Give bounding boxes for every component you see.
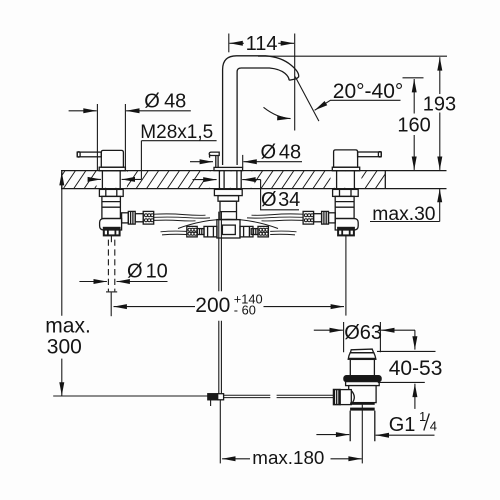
max.30 leader: [439, 189, 441, 222]
pop-up rod coupling white block: [218, 394, 224, 400]
drain lever housing: [340, 390, 351, 405]
svg-text:114: 114: [246, 33, 278, 55]
angle swivel arc: [264, 107, 291, 118]
right hose upper bundle: [247, 214, 303, 221]
rod drop line below coupling: [219, 400, 221, 464]
deck hole centre: [204, 171, 255, 187]
pop-up rod coupling dark block: [208, 394, 218, 400]
pop-up pull rod knob: [209, 152, 219, 158]
svg-text:Ø10: Ø10: [127, 261, 168, 283]
drain plug cap: [348, 353, 376, 360]
svg-text:- 60: - 60: [234, 303, 256, 318]
left valve inlet pipe dashed: [108, 240, 114, 292]
drain slip nut bands: [350, 402, 375, 404]
dim Ø63 extension lines: [344, 322, 381, 352]
right valve elbow: [335, 219, 358, 231]
dim max.300 line: [61, 172, 63, 316]
dim 114 right extension / spout axis line: [294, 34, 296, 131]
right valve mounting nut: [333, 189, 359, 196]
drain tailpipe: [350, 411, 375, 442]
left handle body: [101, 150, 123, 167]
centre shank step: [218, 196, 239, 202]
spout inner contour: [237, 68, 289, 165]
drain washer: [346, 382, 380, 386]
left valve outlet thread: [128, 211, 135, 224]
dim 114 line with arrows: [229, 42, 243, 44]
left valve shank through deck: [102, 171, 120, 189]
tee right hose knurl: [258, 226, 268, 237]
left hose upper bundle: [154, 214, 210, 221]
right hose lower bundle: [270, 231, 296, 235]
left valve elbow: [100, 219, 122, 231]
left valve bottom nut: [104, 228, 120, 236]
pop-up rod lower reference line: [53, 395, 208, 397]
deck hole right valve: [331, 171, 362, 187]
left handle base: [99, 167, 125, 171]
angle label leader: [315, 100, 401, 110]
right handle lever: [358, 152, 382, 157]
svg-text:4: 4: [430, 419, 437, 434]
left valve outlet: [122, 213, 129, 223]
M28x1,5 label leader: [141, 141, 216, 180]
deck bottom line: [61, 188, 447, 190]
svg-text:max.180: max.180: [252, 447, 324, 468]
right valve outlet thread: [322, 211, 329, 224]
left hose lower bundle: [161, 231, 187, 235]
centre tee body: [217, 220, 240, 238]
svg-text:G1: G1: [389, 414, 416, 436]
drain plug top disc: [350, 349, 373, 353]
dim Ø48 left handle arrows: [69, 110, 97, 112]
spout top reference line: [258, 55, 447, 57]
left valve hose knurl: [143, 211, 154, 224]
right handle body: [334, 150, 358, 167]
tee left nut: [204, 226, 217, 237]
dim 193 line: [439, 57, 441, 94]
spout outer contour: [223, 56, 299, 165]
left valve hose nipple: [135, 214, 143, 222]
svg-text:max.: max.: [45, 315, 91, 338]
tee right thread: [251, 229, 258, 235]
spout outlet beak: [289, 79, 296, 81]
left valve mounting nut: [99, 189, 123, 196]
dim Ø48 centre right extension line: [242, 155, 244, 167]
drain upper body: [350, 359, 374, 376]
left valve body: [102, 196, 121, 218]
dim max.180 line with arrows: [222, 458, 250, 460]
drain plug reference line: [377, 350, 436, 352]
dim Ø10 arrows: [79, 281, 107, 283]
spout escutcheon: [214, 167, 243, 170]
centre shank tube: [220, 201, 237, 219]
deck top line: [61, 170, 447, 172]
left handle lever: [77, 152, 101, 157]
right valve body: [335, 196, 354, 218]
svg-text:1: 1: [419, 409, 426, 424]
dim Ø48 left handle extension lines: [97, 104, 125, 170]
pop-up rod: [219, 212, 222, 394]
right valve hose knurl: [303, 211, 314, 224]
drain rod knob: [333, 389, 340, 404]
dim 200 line with arrows: [114, 306, 196, 308]
tee left hose knurl: [187, 226, 197, 237]
drain lower body: [349, 386, 376, 403]
deck hole left valve: [97, 171, 128, 187]
tee left thread: [197, 229, 204, 235]
right valve bottom nut: [338, 228, 354, 236]
right valve outlet: [329, 213, 336, 223]
right valve hose nipple: [314, 214, 322, 222]
right handle base: [332, 167, 359, 171]
dim Ø63 arrows: [314, 329, 343, 331]
centre shank tube joint: [220, 211, 237, 213]
pop-up pull rod stem: [216, 156, 218, 168]
spout outlet reference line: [403, 77, 424, 79]
svg-text:M28x1,5: M28x1,5: [140, 122, 213, 143]
centre mounting nut: [214, 189, 242, 195]
svg-text:40-53: 40-53: [389, 357, 443, 380]
G1 1/4 fraction slash: [424, 414, 430, 431]
dim 40-53 lower arrow: [414, 384, 416, 409]
coupling clamp stub: [210, 400, 212, 406]
svg-text:20°-40°: 20°-40°: [333, 80, 404, 103]
svg-text:Ø48: Ø48: [261, 141, 302, 163]
right valve centreline extension: [345, 235, 347, 315]
svg-text:Ø34: Ø34: [261, 189, 300, 211]
drain seal reference line: [378, 381, 425, 383]
svg-text:Ø48: Ø48: [144, 90, 186, 112]
deck right hatch edge: [384, 171, 386, 189]
dim 160 line: [413, 79, 415, 114]
drain seal ring: [344, 376, 381, 382]
svg-text:Ø63: Ø63: [344, 322, 382, 344]
tee right nut: [240, 226, 253, 237]
svg-text:max.30: max.30: [372, 204, 435, 225]
centre shank through deck: [219, 171, 241, 189]
drain centreline: [361, 405, 363, 464]
dim Ø34 arrows and leader: [193, 179, 217, 181]
dim 114 left extension line: [228, 34, 230, 53]
G1 1/4 leader arrows: [316, 434, 349, 436]
right valve shank through deck: [337, 171, 355, 189]
angle leader diagonal: [295, 77, 319, 122]
dim 40-53 upper arrow: [414, 330, 416, 349]
svg-text:193: 193: [423, 94, 456, 116]
horizontal pop-up rod: [224, 395, 334, 397]
svg-text:160: 160: [397, 115, 430, 137]
dim Ø48 centre arrows: [190, 161, 213, 163]
centre tee inner: [222, 225, 235, 234]
hose dome arc: [178, 219, 278, 228]
svg-text:200: 200: [195, 294, 230, 317]
deck left edge: [61, 171, 63, 189]
left valve centreline extension: [110, 293, 112, 317]
deck hatching: [52, 170, 398, 190]
svg-text:300: 300: [47, 336, 82, 359]
